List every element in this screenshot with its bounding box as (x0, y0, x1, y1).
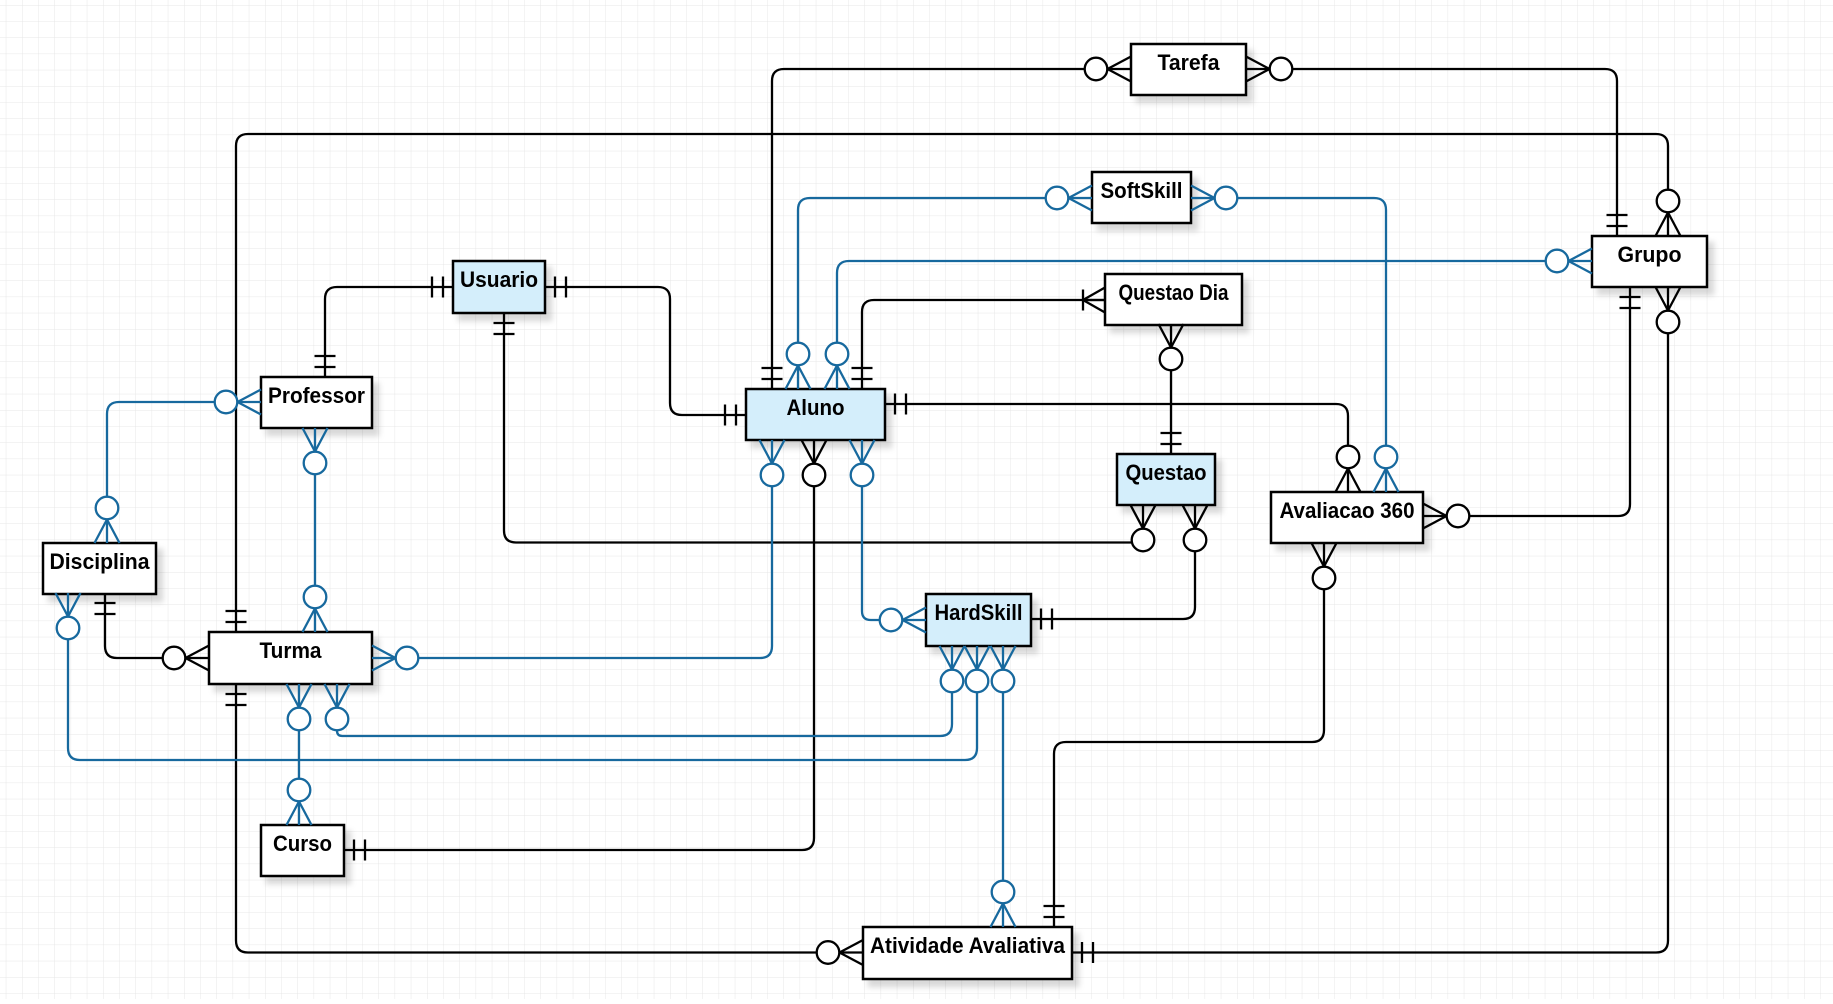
entity Curso (261, 825, 344, 876)
wire Disciplina-Turma (95, 593, 210, 671)
wire Aluno-Turma (372, 440, 785, 671)
entity Questao Dia (1105, 274, 1242, 325)
svg-text:SoftSkill: SoftSkill (1101, 178, 1183, 203)
wire Aluno-Tarefa (762, 57, 1132, 390)
entity HardSkill (926, 594, 1031, 646)
wire Usuario-Aluno (545, 277, 746, 426)
wire Turma-HardSkill (325, 646, 965, 736)
svg-text:Disciplina: Disciplina (50, 549, 150, 574)
entity Professor (261, 377, 372, 428)
wire Avaliacao360-AtividadeAvaliativa (1044, 543, 1337, 927)
entity Avaliacao 360 (1271, 492, 1423, 543)
wire Grupo-Avaliacao360 (1423, 287, 1641, 529)
wire Aluno-QuestaoDia (852, 288, 1106, 390)
entity Grupo (1592, 236, 1707, 287)
svg-text:Tarefa: Tarefa (1158, 50, 1220, 75)
wire Disciplina-HardSkill (56, 593, 990, 760)
svg-text:Avaliacao 360: Avaliacao 360 (1280, 498, 1415, 523)
wire Aluno-Curso (344, 440, 827, 861)
wire Disciplina-Professor (95, 390, 262, 544)
wire Professor-Usuario (315, 277, 454, 378)
wire Aluno-Grupo (825, 249, 1593, 390)
svg-text:Questao Dia: Questao Dia (1119, 280, 1229, 305)
entity Questao (1117, 454, 1215, 505)
svg-text:Grupo: Grupo (1618, 242, 1682, 267)
entity Usuario (453, 261, 545, 313)
wire Turma-Curso (287, 684, 312, 825)
wire Turma-AtividadeAvaliativa (226, 684, 864, 965)
svg-text:Professor: Professor (268, 383, 365, 408)
svg-text:Atividade Avaliativa: Atividade Avaliativa (870, 933, 1065, 958)
entity Atividade Avaliativa (863, 927, 1072, 979)
wire HardSkill-AtividadeAvaliativa (991, 646, 1016, 927)
wire Turma-Grupo (226, 134, 1681, 632)
svg-text:HardSkill: HardSkill (935, 600, 1023, 625)
entity SoftSkill (1092, 172, 1191, 223)
wire SoftSkill-Avaliacao360 (1191, 186, 1399, 493)
entity Tarefa (1131, 44, 1246, 95)
entity Disciplina (43, 543, 156, 594)
wire Aluno-HardSkill (850, 440, 927, 633)
wire Tarefa-Grupo (1246, 57, 1628, 237)
wire Professor-Turma (303, 428, 328, 632)
svg-text:Curso: Curso (273, 831, 332, 856)
wire QuestaoDia-Questao (1159, 324, 1184, 454)
wire Aluno-Avaliacao360 (885, 394, 1361, 493)
svg-text:Turma: Turma (260, 638, 322, 663)
svg-text:Questao: Questao (1126, 460, 1207, 485)
wire Usuario-Questao (494, 313, 1156, 551)
entity Turma (209, 632, 372, 684)
wire Grupo-AtividadeAvaliativa (1072, 287, 1681, 963)
entity Aluno (746, 389, 885, 440)
wire SoftSkill-Aluno (786, 186, 1093, 390)
svg-text:Aluno: Aluno (787, 395, 845, 420)
svg-text:Usuario: Usuario (460, 267, 538, 292)
wire Questao-HardSkill (1031, 505, 1208, 630)
